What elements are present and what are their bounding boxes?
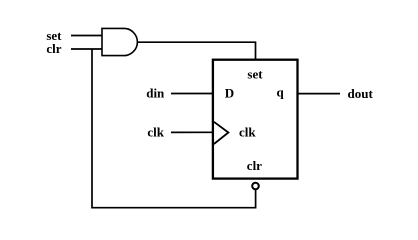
svg-text:clk: clk xyxy=(239,124,256,139)
wire q pin to dout xyxy=(297,93,340,95)
svg-text:clr: clr xyxy=(247,158,262,173)
svg-text:q: q xyxy=(277,85,285,100)
wire din to D pin xyxy=(171,93,213,95)
wire set input to AND gate xyxy=(71,35,102,37)
wire feedback: clr branch down, across bottom, up to clr bubble xyxy=(92,49,256,208)
and-gate U1 xyxy=(102,28,137,55)
svg-text:clk: clk xyxy=(147,124,164,139)
wire clk to clock pin xyxy=(171,131,213,133)
svg-text:din: din xyxy=(146,86,165,101)
wire clr input to AND gate xyxy=(71,48,102,50)
svg-text:clr: clr xyxy=(46,41,61,56)
svg-text:dout: dout xyxy=(348,86,374,101)
flip-flop U2 (box) xyxy=(213,60,298,179)
clock edge triangle xyxy=(214,122,229,144)
clr bubble (active-low) xyxy=(252,183,259,190)
wire AND output to set pin of flip-flop xyxy=(138,42,256,60)
svg-text:set: set xyxy=(247,67,263,82)
svg-text:D: D xyxy=(225,86,234,101)
